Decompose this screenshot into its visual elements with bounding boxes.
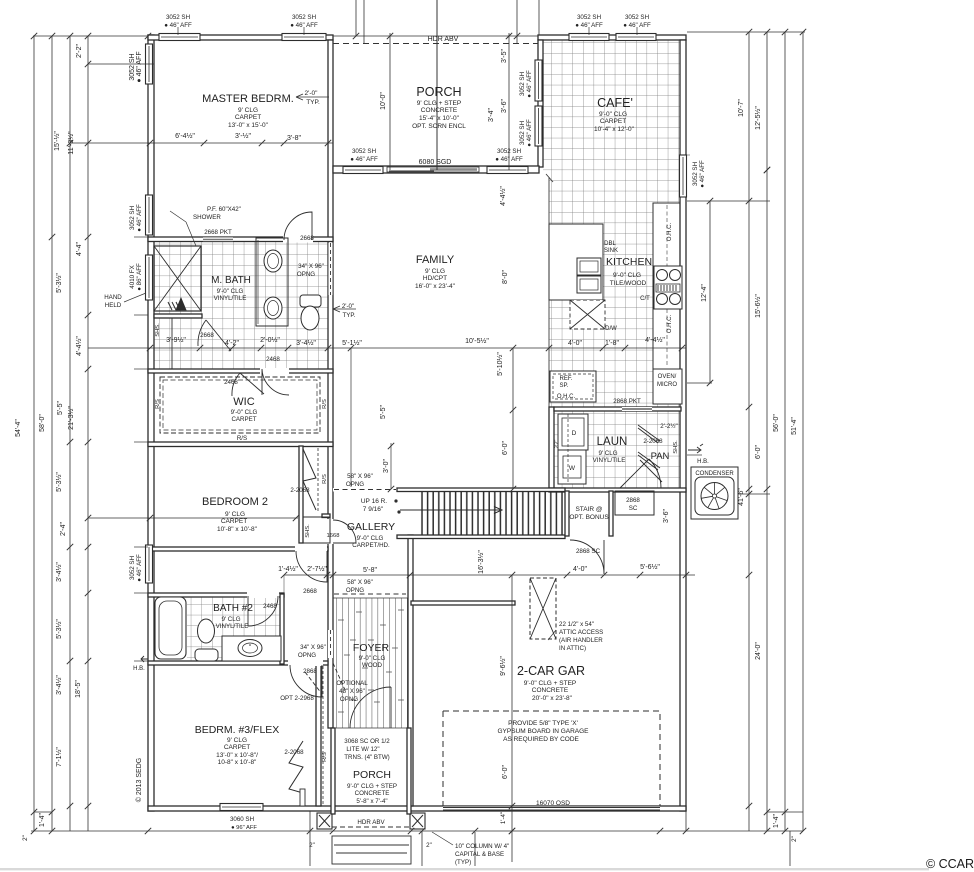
svg-text:2-CAR GAR: 2-CAR GAR <box>517 664 585 678</box>
svg-text:9'-0" CLG + STEP: 9'-0" CLG + STEP <box>347 783 397 790</box>
svg-text:4'-2": 4'-2" <box>225 340 239 347</box>
svg-text:SHS.: SHS. <box>673 440 679 454</box>
svg-text:3'-9½": 3'-9½" <box>166 336 186 344</box>
svg-text:OPT. SCRN ENCL: OPT. SCRN ENCL <box>412 123 466 130</box>
door opening: WIC door gap <box>260 368 289 374</box>
svg-text:58" X 96": 58" X 96" <box>347 579 373 586</box>
svg-text:● 46" AFF: ● 46" AFF <box>575 22 603 29</box>
kitchen island (white block) <box>570 300 605 329</box>
attic access dashed w/ X <box>530 578 556 639</box>
door opening: gallery 1668 gap <box>327 519 334 544</box>
wall: central vertical (master/family ... foyer) <box>328 40 333 728</box>
svg-text:R/S: R/S <box>322 399 328 409</box>
wall: master bath north <box>148 237 333 242</box>
svg-text:20'-0" x 23'-8": 20'-0" x 23'-8" <box>532 695 573 702</box>
svg-text:ATTIC ACCESS: ATTIC ACCESS <box>559 629 603 636</box>
svg-text:O.H.C.: O.H.C. <box>667 315 673 334</box>
laundry tile floor hatch <box>554 410 681 489</box>
hose bib right <box>688 444 703 453</box>
svg-text:3'-6": 3'-6" <box>501 99 508 113</box>
svg-text:5'-8" x 7'-4": 5'-8" x 7'-4" <box>356 798 387 805</box>
svg-text:● 46" AFF: ● 46" AFF <box>699 160 706 188</box>
svg-text:OPNG: OPNG <box>297 271 315 278</box>
svg-text:5'-3½": 5'-3½" <box>55 273 63 293</box>
svg-text:3052 SH: 3052 SH <box>352 148 376 155</box>
svg-text:GALLERY: GALLERY <box>347 521 395 533</box>
svg-text:2": 2" <box>22 835 29 841</box>
svg-text:STAIR @: STAIR @ <box>575 506 602 513</box>
svg-text:12'-5½": 12'-5½" <box>754 106 762 130</box>
svg-text:TRNS. (4" BTW): TRNS. (4" BTW) <box>344 754 390 761</box>
svg-text:R/S: R/S <box>322 752 328 762</box>
svg-text:16'-0" x 23'-4": 16'-0" x 23'-4" <box>415 283 456 290</box>
dim 12-4 kitchen <box>709 201 711 383</box>
svg-text:2'2": 2'2" <box>554 440 560 449</box>
svg-text:PORCH: PORCH <box>416 85 461 99</box>
hose bib left <box>141 656 148 662</box>
svg-text:PORCH: PORCH <box>353 769 391 781</box>
hall dim row y575 <box>284 574 695 576</box>
svg-text:10'-5½": 10'-5½" <box>465 337 489 345</box>
kitchen right cabinets (white strip) <box>653 203 682 369</box>
svg-text:5'-8": 5'-8" <box>363 567 377 574</box>
svg-text:OPNG: OPNG <box>346 587 364 594</box>
svg-text:C/T: C/T <box>640 296 650 302</box>
door 2868 laundry-garage <box>620 459 661 488</box>
svg-text:5'-10½": 5'-10½" <box>496 352 504 376</box>
svg-text:CONDENSER: CONDENSER <box>695 471 734 477</box>
svg-text:2468: 2468 <box>224 379 238 386</box>
svg-text:9'-0" CLG: 9'-0" CLG <box>357 535 384 542</box>
svg-text:● 46" AFF: ● 46" AFF <box>526 70 533 98</box>
door 2868 SC garage entry <box>570 540 604 574</box>
window 3052 SH cafe left upper <box>535 60 542 101</box>
window 3052 SH cafe right <box>680 155 687 197</box>
svg-text:9'-0" CLG: 9'-0" CLG <box>217 288 244 295</box>
svg-text:W: W <box>569 465 576 472</box>
m.bath shelf SHS <box>154 318 172 369</box>
left extension stubs <box>134 236 148 238</box>
svg-text:2": 2" <box>309 842 315 849</box>
svg-text:TYP.: TYP. <box>306 99 320 106</box>
door opening: bath2 door gap <box>247 592 279 598</box>
laundry 6-0 arrow <box>687 454 702 456</box>
m.bath sink 1 <box>264 250 282 272</box>
wall: kitchen/laundry (pocket door wall) <box>554 407 681 411</box>
svg-text:CAFE': CAFE' <box>597 96 633 110</box>
window 3052 SH cafe left lower <box>535 106 542 146</box>
svg-text:8'-0": 8'-0" <box>502 270 509 284</box>
oven/micro cabinet <box>653 369 682 404</box>
svg-text:2668: 2668 <box>200 332 214 339</box>
svg-text:SHS.: SHS. <box>305 524 311 538</box>
svg-text:HD/CPT: HD/CPT <box>423 275 447 282</box>
svg-text:18'-5": 18'-5" <box>75 680 82 698</box>
kitchen double sink <box>577 258 601 275</box>
svg-text:3052 SH: 3052 SH <box>625 14 649 21</box>
condenser unit <box>691 467 738 519</box>
wall: WIC north <box>148 369 333 373</box>
svg-text:2868: 2868 <box>303 668 317 675</box>
svg-text:FAMILY: FAMILY <box>416 254 455 266</box>
svg-text:6'-0": 6'-0" <box>502 441 509 455</box>
svg-text:M. BATH: M. BATH <box>211 275 251 286</box>
kitchen island dashed w/ X <box>570 300 605 329</box>
svg-text:● 46" AFF: ● 46" AFF <box>290 22 318 29</box>
svg-text:1'-4½": 1'-4½" <box>278 565 298 573</box>
svg-text:4'-0": 4'-0" <box>568 340 582 347</box>
window flank 3052 SH porch right <box>487 167 528 174</box>
svg-text:9' CLG: 9' CLG <box>425 268 445 275</box>
window dim leaders top <box>177 27 179 35</box>
svg-text:MASTER BEDRM.: MASTER BEDRM. <box>202 93 294 105</box>
porch columns w/ X <box>317 813 332 829</box>
svg-text:2'-7½": 2'-7½" <box>307 565 327 573</box>
svg-text:10'-4" x 12'-0": 10'-4" x 12'-0" <box>594 126 635 133</box>
door 3068 front entry <box>350 687 391 728</box>
svg-text:OPNG: OPNG <box>340 696 358 703</box>
bath2 hall dim row <box>283 575 285 594</box>
window 3052 SH cafe #1 <box>569 34 609 41</box>
svg-text:OPNG: OPNG <box>346 481 364 488</box>
wall: laundry south <box>549 488 686 492</box>
svg-text:9'-0" CLG: 9'-0" CLG <box>359 655 386 662</box>
svg-text:R/S: R/S <box>237 435 247 442</box>
svg-text:CARPET: CARPET <box>600 118 626 125</box>
wall: laundry west <box>549 407 554 491</box>
wall: bedrm3 east <box>316 664 321 806</box>
svg-text:2468: 2468 <box>263 603 277 610</box>
door 2668 m.bath hall <box>198 320 231 351</box>
m.bath dim row <box>88 347 333 349</box>
wall: stair landing east <box>609 491 613 536</box>
svg-text:● 46" AFF: ● 46" AFF <box>136 554 143 582</box>
svg-text:TYP.: TYP. <box>343 312 356 319</box>
door opening: bedrm3 hall door gap <box>288 660 323 666</box>
svg-text:OPT. BONUS: OPT. BONUS <box>569 514 609 521</box>
m.bath vanity counter <box>256 238 288 326</box>
svg-text:BATH #2: BATH #2 <box>213 603 253 614</box>
svg-text:7 9/16": 7 9/16" <box>363 506 384 513</box>
svg-text:48" X 96": 48" X 96" <box>339 688 365 695</box>
svg-text:SINK: SINK <box>604 248 618 254</box>
porch side walls <box>331 728 335 814</box>
ref space (white block) <box>550 371 596 402</box>
svg-text:PROVIDE 5/8" TYPE 'X': PROVIDE 5/8" TYPE 'X' <box>508 720 578 727</box>
door opening: m.bath 2668 gap <box>283 236 313 243</box>
wall: bedroom2 closet west <box>299 446 303 543</box>
svg-text:DBL: DBL <box>604 241 616 247</box>
door opening: bedroom2 hall door gap <box>295 546 327 552</box>
svg-text:R/S: R/S <box>155 399 161 409</box>
svg-text:54'-4": 54'-4" <box>15 419 22 437</box>
svg-text:21'-3½": 21'-3½" <box>67 406 75 430</box>
svg-text:● 46" AFF: ● 46" AFF <box>526 119 533 147</box>
door 2868 bedrm3 hall <box>290 665 322 697</box>
svg-text:2668: 2668 <box>300 235 314 242</box>
svg-text:3052 SH: 3052 SH <box>497 148 521 155</box>
svg-text:15'-6½": 15'-6½" <box>754 294 762 318</box>
svg-text:CONCRETE: CONCRETE <box>355 790 390 797</box>
m.bath toilet <box>300 295 321 307</box>
svg-text:4010 FX: 4010 FX <box>129 265 136 288</box>
optional door dashed leaf (hall-foyer) <box>333 663 345 690</box>
opening 34x96 master suite entry (dashed) <box>328 243 333 295</box>
gallery vertical dim 3-0 <box>390 443 392 489</box>
window flank 3052 SH porch left <box>343 167 383 174</box>
svg-text:WIC: WIC <box>233 396 254 408</box>
svg-text:SHS.: SHS. <box>155 323 161 337</box>
svg-text:CARPET: CARPET <box>235 114 261 121</box>
foyer plank joints <box>338 619 344 621</box>
svg-text:BEDROOM 2: BEDROOM 2 <box>202 496 268 508</box>
svg-text:3052 SH: 3052 SH <box>166 14 190 21</box>
svg-text:3052 SH: 3052 SH <box>129 556 136 580</box>
shower P.F. 60x42 with X <box>154 246 201 311</box>
svg-text:9' CLG: 9' CLG <box>225 511 245 518</box>
svg-text:OVEN/: OVEN/ <box>658 374 677 380</box>
svg-text:3052 SH: 3052 SH <box>129 206 136 230</box>
svg-text:HDR ABV: HDR ABV <box>357 819 385 826</box>
wall: bath2 south / bedrm3 north <box>148 661 328 665</box>
wall: family south / stair north <box>397 488 565 492</box>
svg-text:● 46" AFF: ● 46" AFF <box>136 51 143 82</box>
svg-text:● 86" AFF: ● 86" AFF <box>136 263 143 291</box>
svg-text:4'-0": 4'-0" <box>573 566 587 573</box>
svg-text:12'-4": 12'-4" <box>701 284 708 302</box>
door 2-2068 bedroom2 closet (bifold) <box>303 449 316 510</box>
svg-text:H.B.: H.B. <box>697 459 709 465</box>
m.bath sink 2 <box>264 297 282 319</box>
svg-text:1'-8": 1'-8" <box>605 340 619 347</box>
svg-text:FOYER: FOYER <box>353 642 390 654</box>
svg-text:4'-4½": 4'-4½" <box>75 336 83 356</box>
dryer box <box>558 450 586 484</box>
svg-text:UP 16 R.: UP 16 R. <box>361 498 387 505</box>
svg-text:SC: SC <box>629 505 638 512</box>
svg-text:2-2068: 2-2068 <box>284 749 304 756</box>
kitchen tile floor hatch <box>549 174 681 407</box>
svg-text:● 46" AFF: ● 46" AFF <box>136 204 143 232</box>
porch HDR ABV dashed <box>332 826 411 828</box>
door 2468 WIC upper <box>262 369 289 395</box>
dim line bottom overall <box>31 830 803 832</box>
SHS closet bedroom2 <box>303 517 330 543</box>
svg-text:6'-4½": 6'-4½" <box>175 132 195 140</box>
bath #2 tile floor hatch <box>187 596 282 662</box>
svg-text:5'-6½": 5'-6½" <box>640 563 660 571</box>
pocket door 2868 PKT (family-hall) <box>333 488 334 492</box>
svg-text:2868: 2868 <box>626 497 640 504</box>
svg-text:● 46" AFF: ● 46" AFF <box>623 22 651 29</box>
svg-text:13'-0" x 15'-0": 13'-0" x 15'-0" <box>228 122 269 129</box>
door 2668 master bedroom <box>284 212 312 240</box>
window 3052 SH left wall upper <box>146 44 153 84</box>
bath2 toilet <box>198 619 215 643</box>
svg-text:3'-½": 3'-½" <box>235 132 251 140</box>
svg-text:P.F. 60"X42": P.F. 60"X42" <box>207 206 241 213</box>
svg-text:2868 SC: 2868 SC <box>576 548 601 555</box>
svg-text:2468: 2468 <box>266 356 280 363</box>
svg-text:2'-2½": 2'-2½" <box>660 423 677 430</box>
pocket door 2668 PKT (master bath) <box>203 237 233 242</box>
svg-text:3'-6": 3'-6" <box>663 509 670 523</box>
porch top dim line <box>333 35 538 37</box>
svg-text:1668: 1668 <box>327 533 340 539</box>
family/kitchen dim row <box>333 347 686 349</box>
svg-text:9'-0" CLG: 9'-0" CLG <box>613 272 641 279</box>
door 2668 hall <box>296 551 327 582</box>
window 4010 FX left wall <box>146 255 153 300</box>
svg-text:34" X 96": 34" X 96" <box>300 644 326 651</box>
master 2-0 typ leader <box>296 96 329 98</box>
svg-text:5'-5": 5'-5" <box>57 401 64 415</box>
wall: stair landing west jamb <box>565 491 569 536</box>
window 3060 SH bedrm3 <box>220 804 263 811</box>
svg-text:● 46" AFF: ● 46" AFF <box>495 156 523 163</box>
garage door 16070 OSD <box>443 807 660 811</box>
dim 2-2 <box>88 63 154 65</box>
svg-text:15'-½": 15'-½" <box>53 131 61 151</box>
range/cooktop burners <box>654 266 682 309</box>
dimension lines: top center verticals <box>355 0 357 36</box>
condenser dim stub <box>738 493 770 495</box>
svg-text:OPNG: OPNG <box>298 652 316 659</box>
svg-text:1'-4": 1'-4" <box>39 813 46 827</box>
opening 34x96 hall-foyer (dashed) <box>328 630 333 658</box>
wall: cafe top exterior <box>538 35 686 40</box>
svg-text:6080 SGD: 6080 SGD <box>419 159 452 166</box>
svg-text:9'-0" CLG + STEP: 9'-0" CLG + STEP <box>524 680 577 687</box>
svg-text:51'-4": 51'-4" <box>791 417 798 435</box>
svg-text:7'-1½": 7'-1½" <box>55 747 63 767</box>
bath2 vanity <box>222 636 281 661</box>
svg-text:D: D <box>572 430 577 437</box>
svg-text:TILE/WOOD: TILE/WOOD <box>610 280 647 287</box>
hand-held shower symbols <box>168 302 180 310</box>
wall: garage north-west <box>411 601 515 605</box>
window 3052 SH cafe #2 <box>616 34 656 41</box>
opening 58x96 gallery-foyer (dashed) <box>334 593 406 595</box>
svg-text:3068 SC OR 1/2: 3068 SC OR 1/2 <box>344 738 390 745</box>
svg-text:9'-6½": 9'-6½" <box>499 656 507 676</box>
svg-text:5'-5": 5'-5" <box>380 405 387 419</box>
svg-text:CONCRETE: CONCRETE <box>421 107 458 114</box>
door 2-2068 bedrm3 (bifold) <box>289 741 303 793</box>
svg-text:1'-4": 1'-4" <box>773 814 780 828</box>
svg-text:HAND: HAND <box>104 294 122 301</box>
svg-text:(TYP): (TYP) <box>455 859 471 866</box>
svg-text:2-2068: 2-2068 <box>643 438 663 445</box>
dimension lines: left column <box>33 36 35 831</box>
svg-text:BEDRM. #3/FLEX: BEDRM. #3/FLEX <box>195 724 280 736</box>
svg-text:3'-4": 3'-4" <box>488 108 495 122</box>
svg-text:9'-0" CLG: 9'-0" CLG <box>599 111 627 118</box>
svg-text:O.H.C.: O.H.C. <box>667 223 673 242</box>
svg-text:CARPET: CARPET <box>221 518 247 525</box>
kitchen tile edge line <box>548 177 550 407</box>
svg-text:9' CLG: 9' CLG <box>238 107 258 114</box>
svg-text:REF.: REF. <box>559 376 572 382</box>
bath2 tub <box>155 597 186 659</box>
garage vertical dim x512 <box>511 575 513 862</box>
svg-text:2": 2" <box>426 842 432 849</box>
svg-text:2'-0": 2'-0" <box>342 303 354 310</box>
window 3052 SH master #2 <box>282 34 326 41</box>
svg-text:AS REQUIRED BY CODE: AS REQUIRED BY CODE <box>503 736 579 743</box>
svg-text:16'-3½": 16'-3½" <box>477 550 485 574</box>
svg-text:● 46" AFF: ● 46" AFF <box>164 22 192 29</box>
svg-text:LAUN: LAUN <box>597 436 628 448</box>
svg-text:VINYL/TILE: VINYL/TILE <box>214 295 247 302</box>
svg-text:2'-0": 2'-0" <box>305 90 319 97</box>
window 3052 SH left wall mid <box>146 195 153 235</box>
cafe right window dim stub <box>764 167 770 173</box>
svg-text:10" COLUMN W/ 4": 10" COLUMN W/ 4" <box>455 843 509 850</box>
svg-text:GYPSUM BOARD IN GARAGE: GYPSUM BOARD IN GARAGE <box>497 728 589 735</box>
svg-text:5'-3½": 5'-3½" <box>55 472 63 492</box>
svg-text:6'-0": 6'-0" <box>502 765 509 779</box>
wall: WIC south / bedroom2 north <box>148 442 333 447</box>
door 2468 WIC lower <box>232 373 264 396</box>
svg-text:2668: 2668 <box>303 588 317 595</box>
svg-text:41'-6": 41'-6" <box>738 488 745 506</box>
svg-text:3060 SH: 3060 SH <box>230 816 254 823</box>
svg-text:3052 SH: 3052 SH <box>577 14 601 21</box>
svg-text:2'-0½": 2'-0½" <box>260 336 280 344</box>
svg-text:3052 SH: 3052 SH <box>692 162 699 186</box>
svg-text:O.H.C.: O.H.C. <box>557 394 576 400</box>
svg-text:16070 OSD: 16070 OSD <box>536 800 570 807</box>
svg-text:10'-7": 10'-7" <box>738 99 745 117</box>
cafe tile floor hatch <box>543 40 681 174</box>
svg-text:3'-5": 3'-5" <box>501 49 508 63</box>
garage gypsum dashed boundary <box>443 711 660 806</box>
svg-text:PAN: PAN <box>651 451 670 462</box>
pantry corner shelves <box>638 425 660 443</box>
svg-text:2-2068: 2-2068 <box>290 487 310 494</box>
door 2468 bath2 <box>248 596 278 626</box>
svg-text:58" X 96": 58" X 96" <box>347 473 373 480</box>
svg-text:5'-3½": 5'-3½" <box>55 619 63 639</box>
svg-text:© 2013 SEDG: © 2013 SEDG <box>135 758 143 802</box>
svg-text:3'-8": 3'-8" <box>287 135 301 142</box>
WIC shelving dashed R/S <box>160 377 320 433</box>
wall: bottom exterior (bedrm3 + garage) <box>148 806 686 811</box>
svg-text:SHOWER: SHOWER <box>193 214 221 221</box>
svg-text:● 46" AFF: ● 46" AFF <box>350 156 378 163</box>
wall: porch south / sliding door wall <box>333 166 539 173</box>
svg-text:2668 PKT: 2668 PKT <box>204 229 232 236</box>
opening 58x96 family-gallery (dashed) <box>334 488 396 492</box>
svg-text:R/S: R/S <box>322 474 328 484</box>
wall: left exterior <box>148 35 154 811</box>
pocket door 2868 PKT (kitchen-laundry) <box>622 407 652 411</box>
kitchen counter w/ sink (white block) <box>549 224 603 300</box>
foyer wood plank floor hatch <box>332 598 408 728</box>
svg-text:9' CLG: 9' CLG <box>227 737 247 744</box>
family vertical dim <box>512 348 514 489</box>
svg-text:13'-0" x 10'-8"/: 13'-0" x 10'-8"/ <box>216 752 258 759</box>
svg-text:VINYL/TILE: VINYL/TILE <box>216 623 249 630</box>
svg-text:VINYL/TILE: VINYL/TILE <box>593 457 626 464</box>
svg-text:9' CLG: 9' CLG <box>221 616 240 623</box>
svg-text:4'-4½": 4'-4½" <box>645 336 665 344</box>
porch HDR ABV dashed top <box>333 43 538 45</box>
master bath tile floor hatch <box>154 241 329 369</box>
svg-text:3052 SH: 3052 SH <box>129 53 136 80</box>
washer box <box>558 414 588 450</box>
